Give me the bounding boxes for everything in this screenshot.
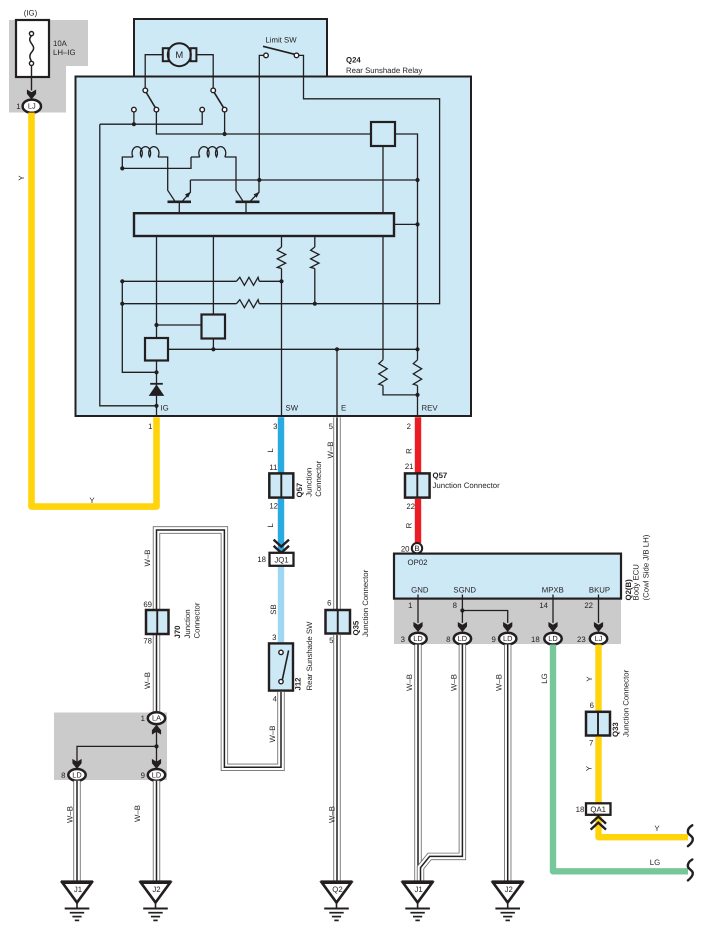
svg-text:J2: J2: [505, 885, 513, 894]
connector 8 LD: [68, 769, 85, 781]
wire S2 bottom to H3: [212, 339, 214, 350]
square block S2: [202, 315, 226, 339]
svg-text:SB: SB: [269, 604, 278, 614]
label Q35 Junction Connector (rotated): [352, 569, 371, 637]
svg-text:10A: 10A: [53, 39, 68, 48]
svg-text:LG: LG: [650, 858, 660, 867]
svg-text:Q57: Q57: [295, 483, 304, 498]
wire IC to S1 (x=156.5): [156, 236, 158, 338]
svg-text:BKUP: BKUP: [589, 586, 610, 595]
wire W-B to ground J1: [73, 781, 80, 882]
junction connector Q33: [586, 712, 610, 736]
wire W-B GND to ground J1: [414, 645, 421, 882]
svg-text:Junction Connector: Junction Connector: [622, 669, 631, 737]
relay pin labels IG SW E REV: [161, 404, 439, 413]
svg-text:W–B: W–B: [143, 672, 152, 689]
diode D1: [149, 384, 165, 396]
svg-text:Y: Y: [89, 496, 95, 505]
svg-text:Limit SW: Limit SW: [265, 36, 297, 45]
limit switch Limit SW: [263, 36, 299, 58]
resistor on REV rail: [413, 360, 421, 386]
svg-text:23: 23: [577, 635, 586, 644]
wire W-B return loop J12 to J70 to splice LA: [157, 530, 282, 767]
svg-text:LH–IG: LH–IG: [53, 48, 76, 57]
svg-text:M: M: [175, 49, 183, 60]
relay switch contacts (left SPDT): [132, 88, 159, 112]
svg-text:Connector: Connector: [314, 460, 323, 496]
resistor row H2: [122, 303, 236, 305]
svg-text:J2: J2: [152, 885, 160, 894]
svg-text:(Cowl Side J/B LH): (Cowl Side J/B LH): [642, 534, 651, 600]
relay block QA1: [576, 803, 611, 815]
svg-text:R: R: [405, 448, 414, 454]
continuation break (Y): [688, 825, 693, 846]
svg-text:MPXB: MPXB: [542, 586, 564, 595]
wire W-B Q35 to ground Q2: [333, 635, 340, 882]
svg-text:Q35: Q35: [352, 620, 361, 635]
ECU pin numbers: [408, 601, 593, 610]
svg-text:6: 6: [327, 599, 331, 608]
svg-text:22: 22: [584, 601, 593, 610]
connector 1 LA: [148, 712, 165, 724]
svg-text:8: 8: [446, 635, 450, 644]
relay block JQ1: [257, 553, 293, 566]
svg-text:SW: SW: [286, 404, 299, 413]
svg-text:Y: Y: [585, 765, 594, 771]
label Q57 Junction Connector: [433, 471, 501, 490]
label Q2(B) Body ECU (Cowl Side J/B LH) rotated: [624, 534, 651, 600]
svg-text:W–B: W–B: [268, 726, 277, 743]
ground J1 (right): [402, 882, 434, 921]
svg-text:Y: Y: [654, 824, 660, 833]
svg-text:Y: Y: [585, 676, 594, 682]
svg-text:7: 7: [589, 739, 593, 748]
svg-text:W–B: W–B: [133, 805, 142, 822]
label J70 Junction Connector (rotated): [173, 602, 201, 638]
svg-text:Junction: Junction: [305, 468, 314, 497]
wire driver S3 output rail (x=417): [395, 134, 418, 360]
svg-text:R: R: [405, 522, 414, 528]
wire S1 to diode to IG pin: [156, 361, 158, 416]
junction connector Q57 (blue): [269, 473, 293, 497]
svg-text:LD: LD: [548, 634, 557, 643]
wire limit SW right contact to H2 feedback line: [259, 55, 439, 303]
svg-text:W–B: W–B: [143, 550, 152, 567]
svg-text:5: 5: [329, 422, 334, 431]
connector 9 LD: [148, 769, 165, 781]
svg-text:W–B: W–B: [66, 806, 75, 823]
wire L (blue) relay SW to Q57: [278, 417, 284, 473]
wire Y (yellow) QA1 onward: [599, 816, 689, 837]
wire fuse to connector 1 LJ: [31, 66, 33, 91]
connector 23 LJ: [590, 633, 607, 645]
svg-text:18: 18: [576, 805, 585, 814]
wire SW sense rail w/ resistor: [281, 236, 283, 247]
svg-text:22: 22: [406, 502, 415, 511]
svg-text:1: 1: [16, 102, 20, 111]
svg-text:LJ: LJ: [595, 634, 603, 643]
junction connector J70: [146, 610, 169, 634]
svg-text:12: 12: [269, 502, 278, 511]
svg-text:2: 2: [407, 422, 411, 431]
wire IC to x417 rail: [394, 223, 418, 225]
svg-text:B: B: [414, 544, 419, 553]
svg-text:J1: J1: [74, 885, 82, 894]
ground Q2: [321, 882, 353, 921]
wire SB to J12: [278, 567, 284, 642]
label Q24 Rear Sunshade Relay: [346, 56, 422, 75]
fuse 10A LH-IG: [16, 9, 76, 78]
junction block J/B background (Body ECU gray band): [394, 599, 621, 644]
svg-text:SGND: SGND: [453, 586, 476, 595]
svg-text:LD: LD: [152, 770, 161, 779]
svg-text:LD: LD: [458, 634, 467, 643]
wire S3 bottom rail (x=383): [382, 146, 384, 360]
wire H3 output rail: [168, 348, 418, 350]
svg-text:69: 69: [143, 600, 152, 609]
node IG junction: [154, 404, 158, 408]
svg-text:11: 11: [269, 463, 277, 472]
svg-text:1: 1: [148, 422, 152, 431]
wire IC to S2 top (x=213.4): [212, 236, 214, 315]
svg-text:Q24: Q24: [346, 56, 361, 65]
svg-text:3: 3: [272, 633, 276, 642]
svg-text:Junction Connector: Junction Connector: [361, 569, 370, 637]
svg-text:Rear Sunshade Relay: Rear Sunshade Relay: [346, 66, 422, 75]
junction connector Q57 (red): [405, 473, 430, 497]
svg-text:Y: Y: [17, 175, 26, 181]
splice arrow into JQ1: [274, 540, 289, 547]
svg-text:18: 18: [531, 635, 540, 644]
svg-text:W–B: W–B: [328, 806, 337, 823]
svg-text:Q2: Q2: [332, 885, 342, 894]
svg-text:14: 14: [539, 601, 548, 610]
splice B: [401, 543, 422, 553]
svg-text:J70: J70: [173, 625, 182, 639]
connector 1 LJ: [16, 100, 41, 113]
motor M: [145, 43, 213, 88]
svg-text:LA: LA: [152, 714, 161, 723]
wire Y from fuse to relay IG pin 1: [32, 113, 157, 507]
svg-text:Connector: Connector: [192, 602, 201, 638]
svg-text:L: L: [266, 523, 275, 528]
svg-text:9: 9: [491, 635, 495, 644]
node coil L1 / base rail: [120, 166, 124, 170]
wire rail x=122 with H1 H2 taps: [122, 281, 156, 372]
svg-text:78: 78: [143, 637, 152, 646]
ground J2: [140, 882, 172, 921]
resistor (S3 branch): [379, 360, 387, 386]
coil L1: [132, 147, 159, 157]
svg-text:L: L: [266, 448, 275, 453]
relay switch contacts (right SPDT): [200, 88, 227, 112]
wire second sense rail w/ resistor: [314, 236, 316, 247]
wire SGND branch: [462, 611, 507, 623]
wire W-B SGND branch to ground J2: [504, 645, 511, 882]
svg-text:LG: LG: [540, 673, 549, 683]
ground J2 (right): [492, 882, 524, 921]
svg-text:21: 21: [405, 462, 414, 471]
transistor Q1: [168, 180, 192, 213]
connector 18 LD: [544, 633, 561, 645]
wire Y (yellow) Q33 to QA1: [595, 737, 601, 804]
wire W-B to ground J2: [153, 781, 160, 882]
svg-text:8: 8: [453, 601, 457, 610]
splice arrow out of QA1: [591, 817, 606, 824]
svg-text:QA1: QA1: [590, 805, 606, 814]
wire line B (switch NO contacts to driver S3): [156, 112, 371, 134]
svg-text:Q33: Q33: [611, 722, 620, 737]
ECU terminal stems: [418, 595, 599, 623]
svg-text:W–B: W–B: [326, 442, 335, 459]
coil L2: [199, 147, 226, 157]
svg-text:LD: LD: [72, 770, 81, 779]
square block S1: [145, 338, 168, 361]
wire limit SW left contact down to node: [259, 55, 263, 180]
wire emitter rail y=180: [190, 179, 417, 181]
svg-text:GND: GND: [411, 586, 429, 595]
ECU Q2(B) Body ECU box: [394, 554, 621, 599]
label Q33 Junction Connector (rotated): [611, 669, 631, 737]
relay Q24 main box: [76, 77, 472, 417]
connector 9 LD: [499, 633, 516, 645]
svg-text:E: E: [341, 404, 346, 413]
svg-text:3: 3: [401, 635, 405, 644]
svg-text:9: 9: [141, 771, 145, 780]
junction connector Q35: [326, 610, 351, 634]
svg-text:J12: J12: [294, 677, 303, 691]
wire W-B SGND to ground J1 (jog): [421, 645, 463, 882]
square block S3: [371, 122, 395, 146]
svg-text:OP02: OP02: [408, 558, 428, 567]
wire R (red) relay REV to Q57: [415, 417, 421, 473]
label J12 Rear Sunshade SW (rotated): [294, 621, 314, 691]
svg-text:LJ: LJ: [28, 102, 36, 111]
svg-text:Junction Connector: Junction Connector: [433, 481, 501, 490]
wire left rail down to IG node: [100, 124, 157, 406]
resistor row H1: [122, 280, 236, 282]
svg-text:LD: LD: [503, 634, 512, 643]
connector 3 LD: [409, 633, 426, 645]
svg-text:6: 6: [590, 701, 594, 710]
svg-text:1: 1: [408, 601, 412, 610]
svg-text:Body ECU: Body ECU: [632, 564, 641, 601]
svg-text:8: 8: [61, 771, 65, 780]
label Q57 Junction Connector (rotated): [295, 460, 323, 497]
wire L (blue) Q57 to JQ1: [278, 499, 284, 553]
wire R (red) Q57 to Body ECU: [415, 499, 421, 543]
IC block (drawn over x383 rail): [134, 213, 394, 236]
relay Q24 top box (motor section): [134, 19, 327, 77]
ground splice block background (bottom left): [54, 713, 167, 781]
svg-text:20: 20: [401, 544, 410, 553]
wire W-B relay E to Q35: [333, 417, 340, 610]
svg-text:W–B: W–B: [405, 674, 414, 691]
ECU terminal labels: [411, 586, 610, 595]
wire Y (yellow) BKUP to Q33: [595, 645, 601, 712]
svg-text:1: 1: [141, 714, 145, 723]
splice LA / LD block: [72, 723, 161, 770]
svg-text:3: 3: [273, 422, 277, 431]
svg-text:LD: LD: [413, 634, 422, 643]
svg-text:W–B: W–B: [450, 674, 459, 691]
svg-text:IG: IG: [161, 404, 169, 413]
svg-text:J1: J1: [414, 885, 422, 894]
wire line A (switch NC contacts): [133, 112, 135, 124]
svg-text:18: 18: [257, 555, 266, 564]
wire coil L2 to transistor Q2 collector: [225, 157, 243, 201]
svg-text:Q57: Q57: [433, 471, 448, 480]
wire coil L1 to transistor Q1 collector: [158, 157, 175, 201]
wire rail between coils: [122, 157, 191, 168]
transistor Q2: [236, 180, 260, 213]
switch J12 Rear Sunshade SW: [269, 643, 293, 690]
fuse block background: [9, 20, 88, 113]
svg-text:JQ1: JQ1: [274, 555, 288, 564]
arrows into connectors: [413, 622, 603, 632]
svg-text:W–B: W–B: [495, 674, 504, 691]
svg-text:(IG): (IG): [24, 9, 38, 18]
svg-text:Junction: Junction: [183, 609, 192, 638]
wire LG (green) MPXB: [553, 645, 688, 872]
connector 8 LD: [454, 633, 471, 645]
continuation break (LG): [688, 860, 693, 881]
svg-text:4: 4: [273, 695, 278, 704]
svg-text:Rear Sunshade SW: Rear Sunshade SW: [305, 621, 314, 691]
svg-text:REV: REV: [422, 404, 439, 413]
wire S1 rail to S2 left: [157, 324, 203, 326]
wire E pin rail: [336, 349, 338, 415]
ground J1: [61, 882, 93, 921]
